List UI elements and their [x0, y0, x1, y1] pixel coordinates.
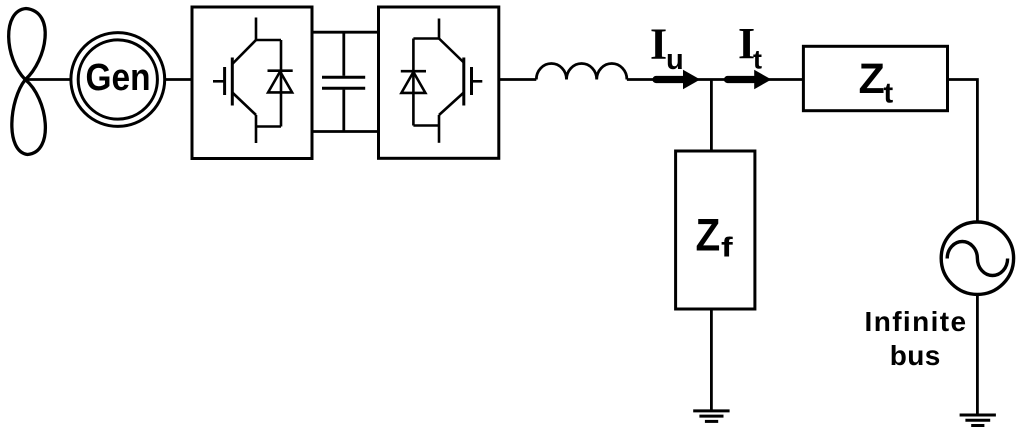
- svg-text:I: I: [650, 19, 667, 68]
- svg-text:Z: Z: [696, 211, 721, 261]
- svg-text:Gen: Gen: [85, 56, 150, 98]
- svg-text:Infinite: Infinite: [865, 306, 968, 337]
- svg-text:t: t: [884, 78, 894, 110]
- svg-text:bus: bus: [890, 340, 941, 371]
- svg-text:f: f: [721, 231, 733, 263]
- svg-text:u: u: [666, 44, 684, 76]
- svg-text:Z: Z: [859, 55, 885, 103]
- svg-text:t: t: [753, 44, 762, 74]
